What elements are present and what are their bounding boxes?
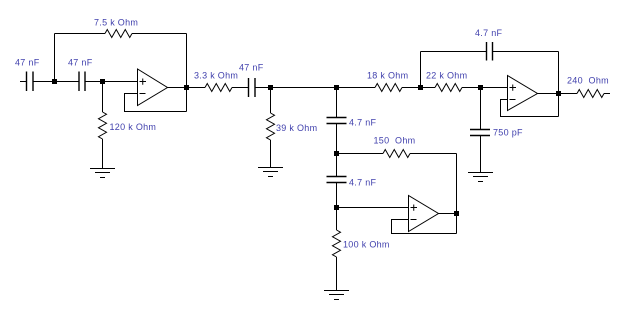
svg-text:750 pF: 750 pF — [493, 128, 523, 138]
wire U3 inverting feedback loop — [501, 100, 559, 117]
wire R8 to ground — [336, 257, 338, 291]
resistor R5 22 k Ohm — [435, 84, 462, 92]
svg-text:100 k Ohm: 100 k Ohm — [343, 240, 390, 250]
wire R3 to ground — [270, 140, 272, 168]
wire C2 to node B — [85, 81, 138, 83]
wire U2 output — [439, 213, 457, 215]
node U1 output junction — [184, 85, 189, 90]
svg-text:7.5 k Ohm: 7.5 k Ohm — [94, 18, 138, 28]
wire output terminal — [604, 93, 610, 95]
wire C6 to node H — [336, 183, 338, 208]
node G junction — [334, 151, 339, 156]
wire node H down to R8 — [336, 208, 338, 231]
wire R2 to C3 — [232, 87, 249, 89]
wire C4 to right vertical — [493, 51, 559, 53]
wire C1 to node A — [33, 81, 79, 83]
node H junction — [334, 205, 339, 210]
svg-text:47 nF: 47 nF — [15, 58, 40, 68]
wire node E up — [420, 52, 422, 88]
wire node C to node D — [271, 87, 337, 89]
svg-text:47 nF: 47 nF — [239, 63, 264, 73]
wire node C down to R3 — [270, 88, 272, 114]
capacitor C2 47 nF — [79, 72, 85, 92]
wire U1 output — [168, 87, 187, 89]
wire node D down to C5 — [336, 88, 338, 118]
svg-text:4.7 nF: 4.7 nF — [475, 28, 503, 38]
wire U3 out to R6 — [559, 93, 578, 95]
resistor R3 39 k Ohm — [267, 113, 275, 140]
wire U1 out to R2 — [187, 87, 206, 89]
svg-text:47 nF: 47 nF — [68, 58, 93, 68]
resistor R1 7.5 k Ohm — [105, 30, 132, 38]
node U3 output junction — [556, 91, 561, 96]
svg-text:39 k Ohm: 39 k Ohm — [276, 123, 317, 133]
wire R9 to ground — [102, 139, 104, 169]
node C junction — [268, 85, 273, 90]
wire U2 inverting feedback loop — [392, 220, 457, 234]
wire C5 to node G — [336, 124, 338, 154]
ground GND4 — [324, 291, 349, 300]
svg-text:4.7 nF: 4.7 nF — [349, 178, 377, 188]
wire R7 to U2 feedback vertical — [410, 153, 457, 155]
wire U1 inverting feedback loop — [125, 94, 187, 112]
svg-text:240 Ohm: 240 Ohm — [567, 76, 609, 86]
wire R5 to node F — [462, 87, 481, 89]
capacitor C3 47 nF — [249, 78, 256, 97]
wire node F down to C7 — [480, 88, 482, 130]
ground GND1 — [90, 169, 115, 178]
wire node B down to R9 — [102, 82, 104, 113]
wire feedback top left — [55, 33, 106, 35]
node D junction — [334, 85, 339, 90]
wire right feedback vertical — [558, 52, 560, 117]
op-amp U1 — [138, 69, 168, 106]
capacitor C1 47 nF — [27, 72, 34, 92]
node E junction — [418, 85, 423, 90]
svg-text:18 k Ohm: 18 k Ohm — [367, 71, 408, 81]
svg-text:22 k Ohm: 22 k Ohm — [426, 71, 467, 81]
wire top feedback to C4 — [421, 51, 487, 53]
resistor R9 120 k Ohm — [99, 112, 107, 139]
node B junction — [100, 79, 105, 84]
svg-text:150 Ohm: 150 Ohm — [374, 136, 416, 146]
resistor R4 18 k Ohm — [375, 84, 402, 92]
wire input segment — [20, 81, 27, 83]
capacitor C5 4.7 nF — [327, 118, 347, 124]
wire R4 to node E — [402, 87, 421, 89]
node F junction — [478, 85, 483, 90]
svg-text:3.3 k Ohm: 3.3 k Ohm — [194, 71, 238, 81]
op-amp U2 — [409, 196, 439, 232]
wire feedback right vertical — [186, 34, 188, 112]
wire C3 to node C — [255, 87, 271, 89]
svg-text:4.7 nF: 4.7 nF — [349, 118, 377, 128]
wire node G to R7 — [337, 153, 384, 155]
wire U2 feedback vertical — [456, 154, 458, 234]
capacitor C7 750 pF — [470, 130, 490, 136]
op-amp U3 — [508, 76, 538, 111]
wire feedback top right — [132, 33, 187, 35]
resistor R6 240 Ohm — [577, 90, 604, 98]
ground GND3 — [468, 173, 493, 182]
wire node G to C6 — [336, 154, 338, 177]
wire C7 to ground — [480, 136, 482, 173]
wire U3 output — [538, 93, 559, 95]
node U2 output junction — [454, 211, 459, 216]
resistor R8 100 k Ohm — [333, 230, 341, 257]
capacitor C4 4.7 nF — [487, 42, 493, 61]
capacitor C6 4.7 nF — [327, 177, 347, 183]
wire node F to U3 — [481, 87, 508, 89]
svg-text:120 k Ohm: 120 k Ohm — [110, 122, 157, 132]
node A junction — [52, 79, 57, 84]
wire node D to R4 — [337, 87, 376, 89]
resistor R2 3.3 k Ohm — [205, 84, 232, 92]
wire node E to R5 — [421, 87, 436, 89]
wire node H to U2 — [337, 207, 409, 209]
ground GND2 — [258, 168, 283, 177]
resistor R7 150 Ohm — [383, 150, 410, 158]
wire node A up to feedback — [54, 34, 56, 82]
